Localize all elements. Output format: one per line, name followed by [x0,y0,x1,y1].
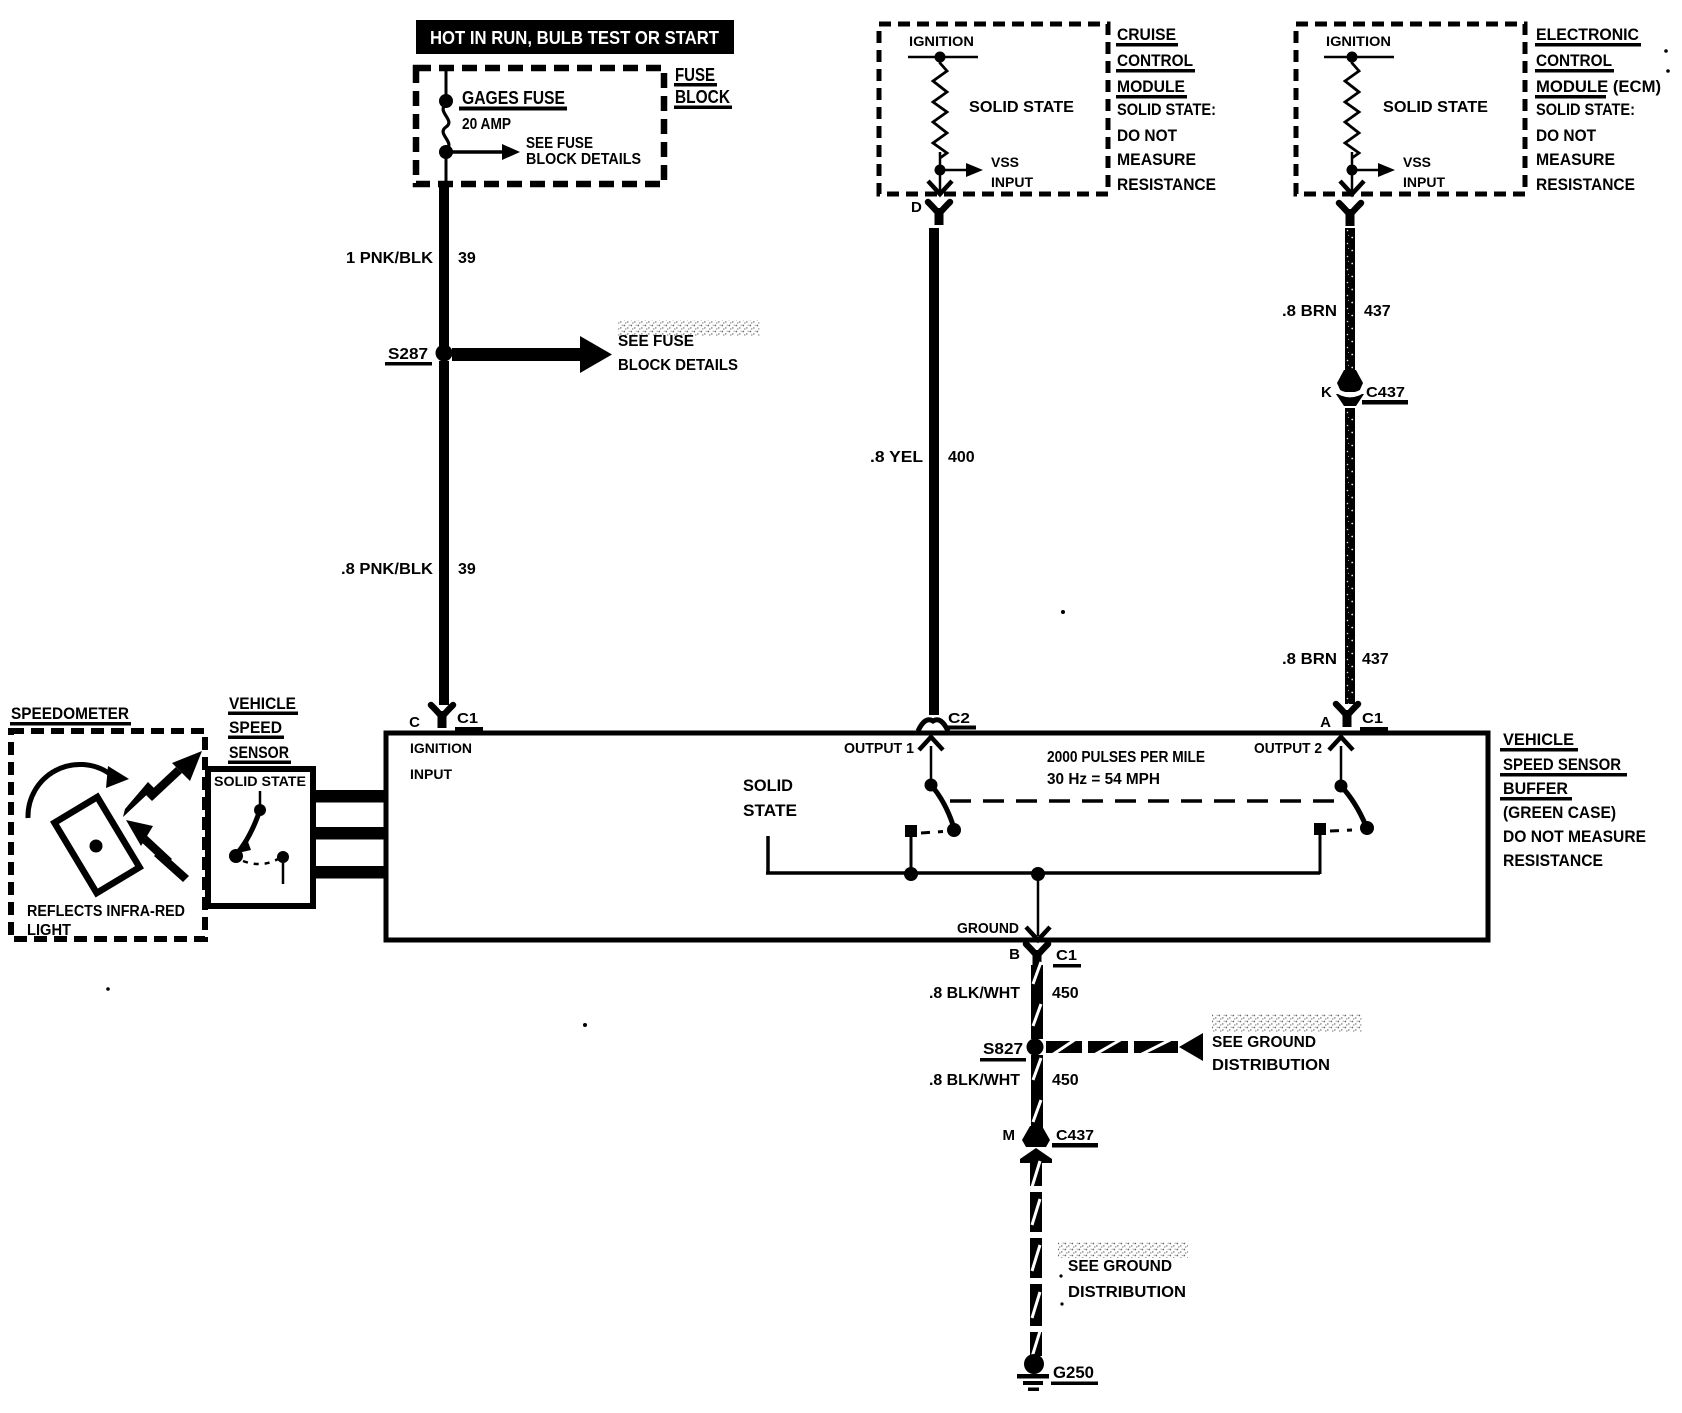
buffer: OUTPUT 2 switch [1314,737,1374,835]
svg-text:K: K [1321,384,1332,401]
scan speck [583,1023,587,1027]
vehicle speed sensor buffer box [386,733,1488,940]
connector C1 pin B (buffer ground) [1009,944,1081,968]
ecm: resistor (solid state input) [1345,60,1359,158]
svg-text:S827: S827 [983,1041,1023,1058]
svg-text:SOLID STATE: SOLID STATE [1383,99,1488,116]
fuse block dashed box [416,68,664,184]
svg-text:MODULE: MODULE [1117,77,1185,96]
buffer: OUTPUT 1 switch [905,737,961,837]
node: fuse bottom terminal [439,145,453,159]
node: bus junction left [904,867,918,881]
svg-text:MEASURE: MEASURE [1536,150,1615,169]
svg-text:A: A [1320,714,1331,731]
svg-text:IGNITION: IGNITION [909,33,974,49]
svg-text:450: 450 [1052,985,1079,1002]
svg-text:VEHICLE: VEHICLE [229,694,296,713]
cruise control module dashed box [879,24,1108,194]
svg-text:.8 PNK/BLK: .8 PNK/BLK [341,561,433,578]
note SEE GROUND DISTRIBUTION (lower) [1058,1242,1188,1301]
scan speck [106,987,110,991]
wire .8 BLK/WHT 450 (lower) [929,1055,1079,1128]
svg-text:.8 YEL: .8 YEL [870,449,923,466]
svg-text:2000 PULSES PER MILE: 2000 PULSES PER MILE [1047,749,1205,766]
sensor: SOLID STATE label [214,773,306,789]
svg-text:CONTROL: CONTROL [1536,51,1612,70]
svg-text:IGNITION: IGNITION [410,740,472,756]
arrow SEE FUSE BLOCK DETAILS (inside fuse block) [446,135,641,168]
wire .8 PNK/BLK 39 [341,361,476,705]
splice S827 [980,1039,1044,1062]
svg-text:VEHICLE: VEHICLE [1503,730,1574,749]
label CRUISE CONTROL MODULE [1116,25,1216,194]
arrow SEE FUSE BLOCK DETAILS (at S287) [452,320,760,374]
svg-text:OUTPUT 1: OUTPUT 1 [844,740,914,757]
svg-text:BLOCK DETAILS: BLOCK DETAILS [618,357,738,374]
svg-text:437: 437 [1362,651,1389,668]
scan speck [1664,49,1670,73]
svg-text:RESISTANCE: RESISTANCE [1503,851,1603,870]
label ELECTRONIC CONTROL MODULE (ECM) [1535,25,1661,194]
connector pin D [911,199,950,225]
svg-text:VSS: VSS [1403,154,1431,170]
fuse GAGES FUSE 20 AMP [443,88,567,150]
svg-text:VSS: VSS [991,154,1019,170]
node: bus junction ground tap [1031,867,1045,881]
svg-text:FUSE: FUSE [675,65,715,85]
speedometer: infra-red beam (reflected, to sensor) [123,751,202,817]
svg-text:CONTROL: CONTROL [1117,51,1193,70]
cruise: IGNITION node [908,33,978,63]
sensor: switch (solid state output) [229,791,289,884]
svg-text:S287: S287 [388,346,428,363]
svg-text:DISTRIBUTION: DISTRIBUTION [1068,1284,1186,1301]
svg-text:SPEEDOMETER: SPEEDOMETER [11,704,129,723]
buffer: IGNITION INPUT label [410,740,472,782]
speedometer: infra-red beam (emitted, to mirror) [126,820,189,882]
svg-text:(GREEN CASE): (GREEN CASE) [1503,803,1616,822]
svg-text:400: 400 [948,449,975,466]
svg-text:.8 BLK/WHT: .8 BLK/WHT [929,1072,1020,1089]
svg-text:SOLID STATE: SOLID STATE [214,773,306,789]
svg-text:REFLECTS INFRA-RED: REFLECTS INFRA-RED [27,903,185,920]
buffer: SOLID STATE label [743,776,797,820]
svg-text:INPUT: INPUT [410,766,452,782]
buffer: switch coupling dashed link [950,799,1345,803]
ground G250 [1017,1354,1098,1391]
svg-text:SOLID STATE: SOLID STATE [969,99,1074,116]
connector C437 pin K [1321,370,1408,406]
vehicle speed sensor box [208,769,313,906]
label FUSE BLOCK [674,65,732,109]
wire .8 YEL 400 [870,228,975,715]
connector C1 pin C (buffer ignition input) [409,705,483,731]
svg-text:.8 BRN: .8 BRN [1282,651,1337,668]
svg-text:.8 BRN: .8 BRN [1282,303,1337,320]
svg-text:INPUT: INPUT [991,174,1033,190]
svg-text:SPEED: SPEED [229,718,282,737]
ecm: IGNITION node [1324,33,1394,63]
svg-text:SEE FUSE: SEE FUSE [526,135,593,152]
wire .8 BLK/WHT 450 (upper) [929,962,1079,1039]
cruise: resistor (solid state input) [933,60,947,158]
svg-text:MEASURE: MEASURE [1117,150,1196,169]
svg-text:HOT IN RUN, BULB TEST OR START: HOT IN RUN, BULB TEST OR START [430,28,719,48]
cruise: SOLID STATE label [969,99,1074,116]
svg-text:SOLID STATE:: SOLID STATE: [1117,100,1216,119]
svg-text:C437: C437 [1366,384,1405,401]
buffer: OUTPUT 2 label [1254,740,1322,757]
speedometer dashed box [10,704,205,939]
label VEHICLE SPEED SENSOR [228,694,298,764]
svg-text:G250: G250 [1053,1363,1094,1382]
sensor-to-buffer connection bars [316,790,386,879]
cruise: pin D arrow through case [928,175,952,194]
svg-text:GROUND: GROUND [957,920,1019,937]
svg-text:B: B [1009,946,1020,963]
svg-text:RESISTANCE: RESISTANCE [1117,175,1216,194]
label VEHICLE SPEED SENSOR BUFFER (GREEN CASE) [1500,730,1646,870]
svg-text:1 PNK/BLK: 1 PNK/BLK [346,250,433,267]
wire 1 PNK/BLK 39 [346,186,476,346]
svg-text:SEE GROUND: SEE GROUND [1068,1258,1172,1275]
cruise: VSS INPUT node + arrow [935,152,1034,190]
scan speck [1061,610,1065,614]
arrow SEE GROUND DISTRIBUTION (at S827) [1046,1014,1362,1074]
wire to G250 (dashed, see ground distribution) [1030,1161,1042,1357]
svg-text:CRUISE: CRUISE [1117,25,1176,44]
svg-text:C1: C1 [1362,710,1383,727]
svg-text:20 AMP: 20 AMP [462,116,511,133]
svg-text:INPUT: INPUT [1403,174,1445,190]
svg-text:SEE GROUND: SEE GROUND [1212,1034,1316,1051]
svg-text:ELECTRONIC: ELECTRONIC [1536,25,1639,44]
wire from banner into fuse [445,68,448,100]
svg-text:450: 450 [1052,1072,1079,1089]
connector C437 pin M [1003,1126,1099,1163]
svg-text:LIGHT: LIGHT [27,922,71,939]
ecm: VSS INPUT node + arrow [1347,152,1446,190]
ecm: pin arrow through case [1340,175,1364,194]
svg-text:SENSOR: SENSOR [229,743,289,762]
connector C2 (buffer output 1) [918,710,976,731]
svg-text:437: 437 [1364,303,1391,320]
svg-text:GAGES FUSE: GAGES FUSE [462,88,565,108]
speedometer: REFLECTS INFRA-RED LIGHT [27,903,185,939]
svg-text:C437: C437 [1056,1127,1094,1144]
svg-text:MODULE (ECM): MODULE (ECM) [1536,77,1661,96]
svg-text:SPEED SENSOR: SPEED SENSOR [1503,755,1621,774]
svg-text:D: D [911,199,922,216]
svg-text:OUTPUT 2: OUTPUT 2 [1254,740,1322,757]
svg-text:BUFFER: BUFFER [1503,779,1568,798]
svg-text:.8 BLK/WHT: .8 BLK/WHT [929,985,1020,1002]
svg-text:C1: C1 [457,710,478,727]
svg-text:SOLID STATE:: SOLID STATE: [1536,100,1635,119]
svg-text:C1: C1 [1056,947,1077,964]
svg-text:39: 39 [458,561,476,578]
scan speck [1059,1274,1063,1305]
speedometer: rotating mirror (rect with hub) [54,797,139,893]
buffer: GROUND label + arrow [957,876,1050,940]
svg-text:39: 39 [458,250,476,267]
svg-text:STATE: STATE [743,801,797,820]
svg-text:SOLID: SOLID [743,776,793,795]
svg-text:30 Hz = 54 MPH: 30 Hz = 54 MPH [1047,771,1160,788]
svg-text:C2: C2 [948,710,970,727]
svg-text:BLOCK DETAILS: BLOCK DETAILS [526,151,641,168]
buffer: common ground bus wire [766,835,1320,874]
buffer: 2000 PULSES PER MILE note [1047,749,1205,788]
wire .8 BRN 437 (lower) [1282,408,1389,704]
splice S287 [385,345,453,366]
connector C1 pin A (buffer output 2) [1320,704,1388,731]
banner HOT IN RUN, BULB TEST OR START [416,20,734,54]
svg-text:DO NOT: DO NOT [1117,126,1178,145]
buffer: OUTPUT 1 label [844,740,914,757]
wire .8 BRN 437 (upper) [1282,203,1391,376]
speedometer: rotation arc arrow [28,764,129,818]
wire: fuse output through box bottom [445,156,448,186]
svg-text:DO NOT MEASURE: DO NOT MEASURE [1503,827,1646,846]
ecm: SOLID STATE label [1383,99,1488,116]
electronic control module dashed box [1296,24,1525,194]
svg-text:DO NOT: DO NOT [1536,126,1597,145]
svg-text:M: M [1003,1127,1016,1144]
svg-text:SEE FUSE: SEE FUSE [618,333,694,350]
svg-text:RESISTANCE: RESISTANCE [1536,175,1635,194]
svg-text:DISTRIBUTION: DISTRIBUTION [1212,1057,1330,1074]
node: fuse top terminal [439,94,453,108]
svg-text:IGNITION: IGNITION [1326,33,1391,49]
svg-text:C: C [409,714,420,731]
svg-text:BLOCK: BLOCK [675,87,730,107]
